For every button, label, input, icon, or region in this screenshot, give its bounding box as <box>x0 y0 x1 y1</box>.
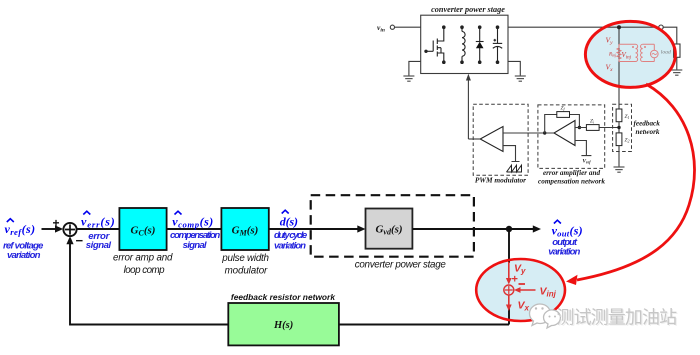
diode D <box>476 27 484 62</box>
svg-text:+: + <box>512 274 518 286</box>
svg-text:modulator: modulator <box>225 266 268 277</box>
svg-text:Vref: Vref <box>582 159 591 165</box>
wire summer to Gc <box>77 228 120 230</box>
secondary winding arcs <box>641 44 643 61</box>
injection circuit: Rinj resistor zigzag + primary loop <box>617 44 654 61</box>
svg-text:Zf: Zf <box>561 106 566 112</box>
svg-text:−: − <box>76 233 84 248</box>
comparator upper input wire from error amp <box>503 132 554 134</box>
feedback sense wire down <box>618 27 620 109</box>
block Gvd(s) <box>366 209 413 249</box>
divider wire <box>618 122 620 133</box>
block Gm(s) <box>221 208 268 250</box>
svg-text:signal: signal <box>183 240 207 251</box>
summer circuit: red down arrow into circle <box>508 262 510 281</box>
resistor Zi <box>586 125 599 131</box>
resistor Z2 <box>616 133 622 146</box>
op-amp output node dot <box>543 131 546 134</box>
summer circuit: summing circle <box>504 285 514 295</box>
inverting input node dot <box>578 126 581 129</box>
summer circuit: minus sign <box>519 283 526 285</box>
red callout curve arrow <box>577 84 695 280</box>
svg-text:variation: variation <box>7 250 41 261</box>
ground right <box>515 76 526 81</box>
phase dot secondary <box>644 46 646 48</box>
wire terminal to load resistor <box>663 27 677 44</box>
phase dot primary <box>632 46 634 48</box>
wire Gc to Gm <box>167 228 222 230</box>
svg-text:测试测量加油站: 测试测量加油站 <box>557 308 678 328</box>
PWM modulator dashed box <box>473 104 528 175</box>
ground load <box>671 70 682 75</box>
svg-text:converter power stage: converter power stage <box>431 5 505 14</box>
svg-text:load: load <box>661 50 671 56</box>
svg-text:verr(s): verr(s) <box>81 215 115 230</box>
summer circuit: red down arrow out <box>508 295 510 308</box>
summing highlight ellipse stroke <box>476 259 565 321</box>
wire Gvd to output <box>412 228 509 230</box>
output arrow <box>509 228 534 230</box>
block H(s) <box>228 303 339 345</box>
Vref wire <box>575 141 591 156</box>
svg-text:error amplifier and: error amplifier and <box>543 169 601 177</box>
junction dot at output sense node <box>617 25 621 29</box>
summing junction <box>63 223 76 236</box>
inductor L <box>462 27 465 62</box>
wire junction to load terminal <box>619 26 659 28</box>
svg-text:vref(s): vref(s) <box>5 222 36 237</box>
svg-text:feedback resistor network: feedback resistor network <box>231 292 335 302</box>
injection source circle <box>651 50 659 58</box>
comparator U2 <box>480 127 503 152</box>
input arrow to summer <box>42 228 57 230</box>
svg-text:GC(s): GC(s) <box>131 225 156 238</box>
wire summer down to feedback <box>508 308 510 325</box>
svg-text:compensation network: compensation network <box>538 178 605 186</box>
block Gc(s) <box>119 208 166 250</box>
secondary loop to source <box>643 44 655 61</box>
vin terminal circle <box>390 25 394 29</box>
wire box lower-left to ground <box>409 61 421 75</box>
duty-cycle arrow into power stage box <box>467 79 469 139</box>
inverting input wire with Zi <box>575 127 619 129</box>
svg-text:H(s): H(s) <box>273 320 293 331</box>
feedback wire bottom <box>339 324 509 326</box>
injection highlight ellipse stroke <box>585 21 675 87</box>
wire to ground <box>618 146 620 167</box>
feedback wire to summer <box>70 239 228 325</box>
svg-text:vcomp(s): vcomp(s) <box>172 215 213 230</box>
wire Gm to Gvd with arrow <box>269 228 359 230</box>
sawtooth ramp symbol <box>507 165 522 172</box>
feedback network dashed box <box>613 104 632 151</box>
op-amp U1 <box>554 121 575 146</box>
primary winding arcs <box>636 44 638 61</box>
wechat icon bubble big <box>529 304 550 325</box>
svg-text:Zi: Zi <box>590 119 594 125</box>
ground feedback divider <box>614 167 625 172</box>
load resistor <box>674 44 680 57</box>
wire vin to box <box>395 26 421 28</box>
svg-text:Rinj: Rinj <box>608 53 616 58</box>
summing-point highlight ellipse fill (bottom) <box>476 259 565 321</box>
resistor Z1 <box>616 109 622 122</box>
wire box lower-right to ground <box>508 61 520 75</box>
wire output down to summer <box>508 229 510 263</box>
svg-text:+: + <box>53 216 60 230</box>
resistor Zf <box>557 112 570 118</box>
converter power stage box <box>421 15 508 73</box>
wire load to ground <box>676 57 678 69</box>
svg-text:Z2: Z2 <box>625 138 630 144</box>
svg-text:error amp and: error amp and <box>113 253 173 264</box>
svg-text:feedback: feedback <box>634 120 661 128</box>
output junction dot <box>506 226 512 232</box>
svg-text:variation: variation <box>274 240 306 251</box>
ground left <box>403 76 414 81</box>
svg-text:signal: signal <box>86 240 112 251</box>
output wire to junction <box>508 26 619 28</box>
svg-text:PWM modulator: PWM modulator <box>475 176 526 185</box>
svg-text:d(s): d(s) <box>280 215 298 229</box>
divider node dot <box>617 126 620 129</box>
capacitor C <box>493 27 502 62</box>
comparator ramp input wire <box>503 146 520 162</box>
comparator output wire <box>468 138 480 140</box>
injection-point highlight ellipse fill (top right) <box>585 21 675 87</box>
svg-text:vin: vin <box>377 23 385 34</box>
load terminal circle <box>659 25 663 29</box>
Zf feedback wire <box>545 115 580 134</box>
mosfet Q1 <box>426 27 444 62</box>
svg-text:converter power stage: converter power stage <box>355 259 447 270</box>
svg-text:network: network <box>636 128 660 136</box>
svg-text:loop comp: loop comp <box>124 265 166 276</box>
error amplifier dashed box <box>538 105 605 168</box>
summer circuit: Vinj arrow <box>518 289 536 291</box>
converter power stage dashed box <box>311 195 474 257</box>
svg-text:Z1: Z1 <box>625 114 630 120</box>
svg-text:variation: variation <box>548 247 580 258</box>
svg-text:pulse width: pulse width <box>221 253 269 264</box>
